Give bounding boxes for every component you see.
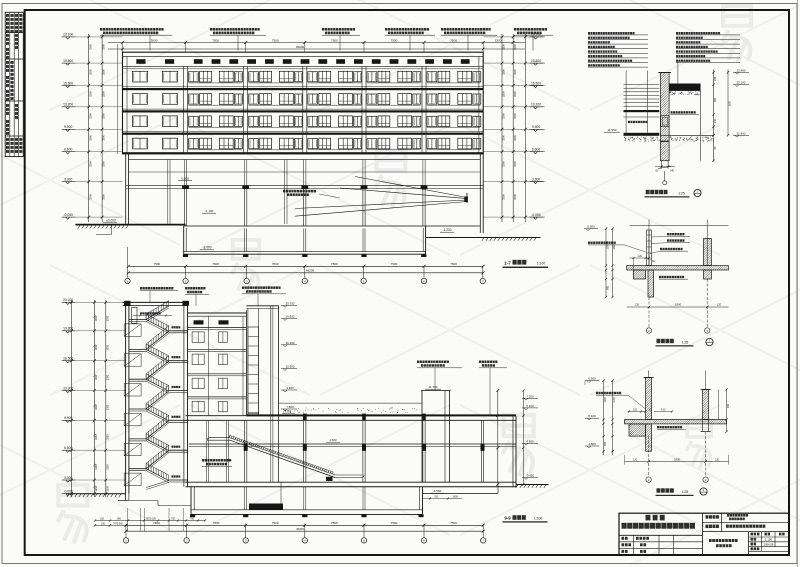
elevation: top dimension line [108, 38, 525, 52]
svg-text:7.800: 7.800 [286, 405, 294, 409]
svg-text:45000: 45000 [296, 45, 305, 49]
svg-text:1:25: 1:25 [682, 340, 689, 344]
svg-text:6.600: 6.600 [587, 225, 595, 229]
elevation: annotation leader lines [150, 35, 533, 50]
section: shaft annotations [417, 361, 507, 416]
svg-text:900: 900 [607, 285, 610, 290]
svg-text:2100: 2100 [613, 397, 616, 403]
detail1: roof layer lines [624, 71, 660, 133]
elevation: window rows [133, 71, 481, 150]
elevation: title 1-7 [503, 260, 549, 268]
elevation: right dimension chains [501, 34, 527, 222]
svg-text:3300: 3300 [106, 404, 109, 410]
svg-text:4.500: 4.500 [588, 442, 596, 446]
detail1: left layer annotation blob [628, 121, 647, 123]
section: elevator shaft above roof [421, 385, 451, 482]
title block: drawing name cell [709, 539, 738, 547]
section: stair floor level labels [172, 326, 181, 477]
elevation ground storey: hall walls [126, 153, 484, 233]
svg-text:-0.050: -0.050 [64, 213, 74, 217]
elevation ground storey: hall level label [178, 177, 216, 214]
svg-text:3300: 3300 [502, 135, 506, 141]
svg-text:250: 250 [714, 118, 717, 123]
svg-text:900: 900 [727, 403, 730, 408]
svg-text:3300: 3300 [88, 161, 92, 167]
svg-text:3300: 3300 [502, 161, 506, 167]
section: stair first flight dim [133, 312, 172, 316]
section: escalator [208, 435, 365, 481]
detail2: leader note glass [650, 248, 688, 254]
svg-text:3300: 3300 [102, 161, 106, 167]
detail1: notes leader lines [677, 62, 679, 84]
svg-text:7500: 7500 [450, 521, 457, 525]
section: left dimension chains [70, 300, 109, 497]
detail2: small dims at sill [630, 256, 656, 270]
section: bottom main dimension line [125, 521, 485, 533]
detail2: mullion leader notes [651, 233, 690, 244]
section: hall roof speckle [283, 408, 417, 414]
elevation: raked seating slab wedge [295, 177, 468, 217]
svg-text:3300: 3300 [106, 464, 109, 470]
svg-text:46200: 46200 [296, 527, 304, 531]
detail1: left notes column [588, 32, 648, 67]
svg-text:3.300: 3.300 [532, 177, 540, 181]
title block: project cells [706, 514, 766, 528]
detail3: inner annotation [657, 426, 686, 429]
section: tower ground and foundation [66, 494, 129, 501]
section: top annotation blobs [140, 286, 286, 305]
svg-text:16.500: 16.500 [531, 81, 541, 85]
section: grid axis bubbles [123, 524, 486, 544]
detail1: room-side wall face line [699, 84, 701, 161]
section: lobby level flags [281, 302, 297, 411]
svg-text:3300: 3300 [513, 161, 517, 167]
svg-text:7500: 7500 [213, 521, 220, 525]
detail3: right dim chain [719, 388, 731, 433]
svg-text:7500: 7500 [331, 521, 338, 525]
svg-text:1650: 1650 [95, 434, 98, 440]
svg-text:3300: 3300 [88, 91, 92, 97]
svg-text:7500: 7500 [331, 262, 338, 266]
detail2: left level flag [584, 225, 598, 231]
svg-text:4.50: 4.50 [661, 408, 666, 411]
detail1: floor speckle bands [624, 137, 660, 142]
svg-text:900: 900 [604, 441, 607, 446]
svg-text:9.900: 9.900 [64, 125, 72, 129]
svg-text:3300: 3300 [102, 91, 106, 97]
section: hall interior walls under mid block [207, 420, 229, 482]
svg-text:700: 700 [434, 495, 439, 498]
elevation ground storey: mid band beam line [126, 185, 484, 189]
detail3: bottom dimension line [625, 455, 729, 465]
svg-text:3300: 3300 [102, 194, 106, 200]
elevation: bottom dimension line [127, 262, 485, 275]
detail2: left dim chain [605, 228, 616, 299]
svg-text:1:100: 1:100 [765, 538, 772, 542]
svg-text:3300: 3300 [102, 44, 106, 50]
svg-text:1400: 1400 [452, 495, 458, 498]
detail1: wall lines to break [658, 161, 672, 169]
title block: company name [622, 515, 695, 529]
svg-text:19.500: 19.500 [286, 315, 295, 319]
svg-text:9.600: 9.600 [286, 386, 294, 390]
svg-text:1500: 1500 [607, 244, 610, 250]
section: escalator annotation [202, 459, 232, 466]
svg-text:21.600: 21.600 [737, 131, 746, 135]
svg-text:1:25: 1:25 [678, 191, 685, 195]
svg-text:16.500: 16.500 [63, 81, 73, 85]
svg-text:9.700: 9.700 [285, 410, 292, 414]
svg-text:1:25: 1:25 [682, 490, 689, 494]
detail3: centerlines and axis circles [646, 432, 708, 483]
svg-text:-1.200: -1.200 [442, 228, 451, 232]
svg-text:3300: 3300 [502, 113, 506, 119]
section: basement pit [190, 482, 462, 517]
section: hall roof slab [186, 414, 517, 420]
svg-text:7500: 7500 [212, 262, 219, 266]
detail1: title [645, 189, 702, 197]
svg-text:3300: 3300 [88, 113, 92, 119]
elevation: wedge annotation [283, 190, 340, 198]
section: roof upstand line [279, 403, 422, 414]
section: hall floor slab [186, 482, 517, 487]
elevation ground storey: columns [185, 160, 426, 226]
detail1: leader to detail circle [663, 171, 667, 185]
svg-text:120: 120 [715, 458, 720, 461]
svg-text:3300: 3300 [88, 44, 92, 50]
left margin signature strip [5, 12, 23, 156]
svg-text:3.300: 3.300 [64, 177, 72, 181]
svg-text:240: 240 [670, 170, 675, 173]
section: right ground line [423, 485, 549, 494]
detail2: left sill leader note [588, 242, 646, 253]
elevation: right level extension lines [484, 37, 546, 217]
detail3: wall top cap [644, 371, 654, 378]
svg-text:1650: 1650 [95, 374, 98, 380]
section: left level extension lines [76, 302, 126, 493]
detail3: right wall cap and stem [701, 371, 711, 432]
section: mid classroom block [188, 310, 247, 416]
detail3: small dims mid [628, 408, 674, 412]
svg-text:13.200: 13.200 [531, 103, 541, 107]
svg-text:-3.000: -3.000 [202, 246, 211, 250]
svg-text:6.600: 6.600 [588, 377, 596, 381]
svg-text:7500: 7500 [272, 521, 279, 525]
section: mezzanine slab [189, 444, 516, 446]
detail3: title [656, 488, 708, 496]
section: lobby tall window strip [246, 306, 278, 416]
detail1: parapet cap [659, 72, 672, 74]
svg-text:4.500: 4.500 [330, 438, 337, 442]
svg-text:3300: 3300 [502, 91, 506, 97]
section: right dim chain and flags [496, 389, 538, 486]
svg-text:6.600: 6.600 [532, 148, 540, 152]
svg-text:900: 900 [714, 97, 717, 102]
svg-text:23.100: 23.100 [63, 33, 73, 37]
elevation: floor band lines [123, 87, 484, 154]
detail1: level label left [604, 128, 620, 132]
svg-text:16.200: 16.200 [286, 341, 295, 345]
title block: right info cells [751, 533, 785, 551]
svg-text:7500: 7500 [391, 38, 398, 42]
detail2: bottom dimension line [627, 303, 729, 309]
svg-text:3300: 3300 [106, 486, 109, 492]
svg-text:1:100: 1:100 [534, 517, 543, 521]
svg-text:3000: 3000 [151, 38, 158, 42]
section: stair flights and landings [124, 301, 187, 490]
svg-text:20.700: 20.700 [286, 302, 295, 306]
svg-text:11.550: 11.550 [608, 128, 617, 132]
detail2: window mullion [647, 230, 652, 266]
svg-text:3300: 3300 [102, 69, 106, 75]
svg-text:7.200: 7.200 [526, 394, 534, 398]
svg-text:5.100: 5.100 [588, 414, 596, 418]
signature strip vertical text blobs [6, 14, 22, 153]
elevation: ground line left [75, 219, 185, 235]
svg-text:250: 250 [714, 76, 717, 81]
svg-text:1650: 1650 [95, 486, 98, 492]
detail1: right level flags [733, 68, 749, 137]
svg-text:7500: 7500 [450, 38, 457, 42]
section: column heads in roof slab [303, 414, 426, 421]
svg-text:1-7: 1-7 [504, 261, 511, 266]
section: lobby walls continue to floor [271, 416, 279, 483]
svg-text:3300: 3300 [102, 113, 106, 119]
svg-text:1650: 1650 [95, 404, 98, 410]
detail1: right notes column [676, 32, 740, 63]
detail3: note with leader [596, 392, 646, 409]
svg-text:1500: 1500 [604, 397, 607, 403]
svg-text:1500: 1500 [495, 38, 502, 42]
section: hall columns [245, 420, 484, 482]
section: stepped foundation under tower [129, 501, 191, 506]
svg-text:3300: 3300 [513, 113, 517, 119]
elevation: building outline [123, 52, 484, 154]
detail2: inner annotation [659, 276, 688, 279]
section: hall right wall [513, 416, 516, 487]
svg-text:3300: 3300 [106, 315, 109, 321]
detail3: top level flag [585, 377, 599, 386]
title block frame [619, 513, 789, 555]
svg-text:1580: 1580 [613, 244, 616, 250]
detail2: top extension line [630, 220, 729, 266]
section: mid block parapet dark vents [194, 320, 229, 324]
detail1: floor slab line [661, 134, 714, 136]
svg-text:9-9: 9-9 [504, 516, 511, 521]
detail1: inner annotation [671, 111, 700, 114]
svg-text:3300: 3300 [88, 194, 92, 200]
svg-text:3300: 3300 [502, 69, 506, 75]
svg-text:-0.050: -0.050 [531, 213, 541, 217]
svg-text:11.700: 11.700 [429, 385, 438, 389]
svg-text:7500: 7500 [212, 38, 219, 42]
svg-text:-0.450: -0.450 [526, 474, 535, 478]
svg-text:46200: 46200 [306, 268, 315, 272]
svg-text:3300: 3300 [502, 194, 506, 200]
elevation ground storey: entrance mullions [168, 160, 287, 224]
detail1: right dimension chain [712, 70, 731, 163]
svg-text:3.300: 3.300 [64, 476, 72, 480]
svg-text:7500: 7500 [391, 521, 398, 525]
svg-text:3300: 3300 [513, 69, 517, 75]
svg-text:7500: 7500 [272, 38, 279, 42]
svg-text:1800: 1800 [674, 457, 680, 461]
detail1: roof slab [669, 84, 700, 91]
svg-text:3300: 3300 [513, 44, 517, 50]
svg-text:4.500: 4.500 [526, 439, 534, 443]
elevation: grid axis bubbles [125, 247, 486, 284]
svg-text:12.900: 12.900 [286, 365, 295, 369]
svg-text:19.800: 19.800 [531, 59, 541, 63]
svg-text:6.600: 6.600 [64, 148, 72, 152]
elevation: right level flags [530, 33, 544, 220]
svg-text:23.400: 23.400 [737, 68, 746, 72]
elevation: left dimension chains [87, 34, 118, 222]
section: mezzanine column heads [244, 444, 485, 451]
elevation: left level extension lines [76, 37, 123, 217]
svg-text:6.000: 6.000 [181, 177, 189, 181]
section: title 9-9 [503, 515, 548, 522]
svg-text:3300: 3300 [513, 194, 517, 200]
svg-text:3300: 3300 [513, 91, 517, 97]
detail3: left lower level flags [585, 414, 599, 448]
svg-text:3300: 3300 [513, 135, 517, 141]
svg-text:1650: 1650 [95, 315, 98, 321]
svg-text:1650: 1650 [95, 344, 98, 350]
elevation: left level flags [62, 33, 76, 220]
svg-text:9.900: 9.900 [64, 416, 72, 420]
elevation: right lower ground [426, 226, 541, 241]
svg-text:3300: 3300 [106, 374, 109, 380]
detail1: roof slab speckle [669, 91, 701, 95]
elevation: structural grid piers [184, 66, 426, 152]
svg-text:7500: 7500 [272, 262, 279, 266]
elevation: top clerestory dark windows [136, 59, 469, 64]
svg-text:23.100: 23.100 [737, 81, 746, 85]
svg-text:3300: 3300 [88, 69, 92, 75]
svg-text:120: 120 [633, 458, 638, 461]
elevation: roof material annotation blobs [100, 28, 553, 35]
svg-text:3300: 3300 [88, 135, 92, 141]
svg-text:7400: 7400 [153, 521, 160, 525]
svg-text:7500: 7500 [331, 38, 338, 42]
title block: signature labels [622, 537, 649, 553]
elevation: basement pit [183, 226, 427, 257]
svg-text:23.100: 23.100 [531, 33, 541, 37]
svg-text:13.200: 13.200 [63, 103, 73, 107]
svg-text:±0.000: ±0.000 [106, 219, 116, 223]
svg-text:1600: 1600 [729, 101, 732, 107]
svg-text:1800: 1800 [675, 303, 681, 307]
svg-text:9.900: 9.900 [532, 125, 540, 129]
svg-text:120: 120 [635, 304, 640, 307]
svg-text:3300: 3300 [502, 44, 506, 50]
section: stair tower walls [123, 301, 190, 494]
svg-text:7475-300: 7475-300 [113, 523, 123, 525]
svg-text:19.800: 19.800 [63, 59, 73, 63]
svg-text:7500: 7500 [154, 262, 161, 266]
detail2: centerlines and axis circles [646, 279, 710, 333]
detail1: roof membrane strip [624, 133, 660, 136]
section: left level flags [62, 298, 76, 496]
svg-text:2006.06: 2006.06 [763, 542, 774, 546]
detail2: title [656, 338, 714, 346]
svg-text:3300: 3300 [106, 434, 109, 440]
svg-text:-1.500: -1.500 [433, 489, 442, 493]
detail1: bottom dim ticks [655, 165, 675, 172]
detail3: left dim chain [602, 380, 616, 456]
svg-text:5.100: 5.100 [526, 404, 534, 408]
svg-text:6.600: 6.600 [64, 446, 72, 450]
detail1: window frame in parapet wall [661, 116, 670, 127]
svg-text:-1.100: -1.100 [205, 209, 214, 213]
svg-text:7500: 7500 [391, 262, 398, 266]
svg-text:120: 120 [717, 304, 722, 307]
svg-text:1650: 1650 [95, 464, 98, 470]
svg-text:1:100: 1:100 [537, 262, 546, 266]
svg-text:7500: 7500 [450, 262, 457, 266]
section: bottom small dims left [94, 508, 206, 531]
svg-text:3300: 3300 [102, 135, 106, 141]
svg-text:3300: 3300 [106, 344, 109, 350]
